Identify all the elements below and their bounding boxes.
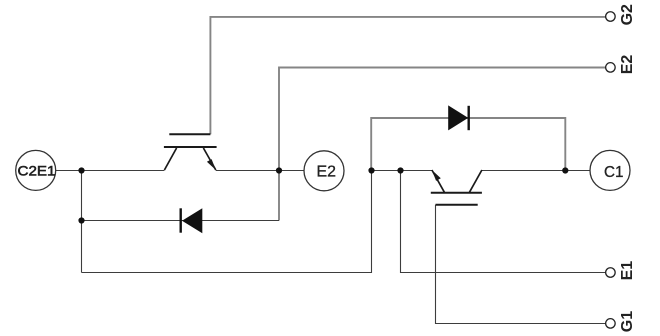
emitter arrow Q1 <box>432 170 441 181</box>
svg-text:G1: G1 <box>619 311 636 332</box>
soft gray wires <box>210 17 605 221</box>
emitter lead <box>432 170 445 192</box>
terminal G2 (aux gate 2) <box>606 4 636 25</box>
diode D2 (left, anti-parallel) <box>181 208 203 233</box>
svg-text:E2: E2 <box>619 55 636 75</box>
wire: bottom wire C2E1 to IGBT1 emitter node <box>82 171 372 273</box>
wire: IGBT2 emitter to E2 circle <box>216 170 304 172</box>
node C2E1 diode branch <box>78 217 84 223</box>
collector lead <box>469 170 482 192</box>
wire: C2E1 to IGBT2 collector <box>56 170 165 172</box>
node E1/anode junction <box>368 167 374 173</box>
node C1/cathode junction <box>562 167 568 173</box>
gate plate <box>436 204 478 206</box>
wire: diode D2 branch <box>82 220 280 222</box>
collector lead <box>164 148 176 170</box>
node E2 branch <box>276 167 282 173</box>
svg-text:G2: G2 <box>619 4 636 25</box>
node C2E1 top <box>78 167 84 173</box>
wire: E2 aux horizontal and vertical down to diode wire <box>279 68 605 221</box>
svg-text:E1: E1 <box>619 261 636 281</box>
wire: top horizontal to G2 terminal with gate2 lead <box>210 17 605 134</box>
svg-text:C2E1: C2E1 <box>18 162 56 178</box>
terminal E1 (aux emitter 1) <box>606 261 636 281</box>
terminal E2 <box>304 151 344 191</box>
wire: emitter1 node wire <box>372 170 432 172</box>
svg-text:C1: C1 <box>604 164 624 181</box>
gate plate <box>169 133 210 135</box>
wire: vertical from C2E1 node down to bottom wire <box>81 171 83 273</box>
node E1 aux tap <box>397 167 403 173</box>
svg-text:E2: E2 <box>317 163 337 180</box>
terminal E2 (aux emitter 2) <box>606 55 636 75</box>
transistor Q1 (right IGBT) <box>431 170 482 205</box>
terminal G1 (aux gate 1) <box>606 311 636 332</box>
node: junction dots <box>78 167 568 223</box>
wire: IGBT1 collector to C1 <box>482 170 590 172</box>
terminal C2E1 <box>16 150 56 190</box>
emitter lead <box>203 148 215 170</box>
terminal C1 <box>590 150 630 190</box>
emitter arrow Q2 <box>207 159 216 170</box>
body bar <box>431 192 482 194</box>
wire: gate1 lead down and to G1 terminal <box>436 205 606 324</box>
wire: E1 aux <box>401 171 606 273</box>
transistor Q2 (left IGBT) <box>164 134 217 170</box>
body bar <box>164 146 217 148</box>
crisp dark wires <box>56 171 606 324</box>
diode D1 (right, anti-parallel) <box>448 105 469 130</box>
wire: diode D1 branch top <box>371 118 565 171</box>
